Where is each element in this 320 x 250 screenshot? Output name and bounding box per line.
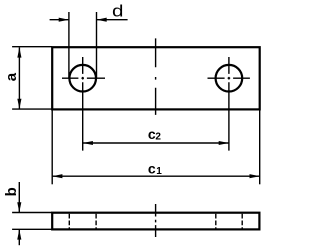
hidden line hole left edge <box>68 214 70 229</box>
hidden line hole left edge 2 <box>95 214 97 229</box>
dimension b line top <box>18 182 20 212</box>
dimension d extension line left <box>68 12 70 78</box>
svg-text:1: 1 <box>156 166 162 177</box>
dimension a arrow top <box>17 47 21 57</box>
dimension d arrow left <box>59 18 69 22</box>
centerline horizontal left hole <box>62 77 105 79</box>
dimension b arrow down <box>17 202 21 212</box>
hidden line hole right edge <box>215 214 217 229</box>
dimension d arrow right <box>97 18 107 22</box>
dimension c1 arrow right <box>250 174 260 178</box>
centerline vertical left hole <box>82 57 84 151</box>
svg-text:2: 2 <box>155 131 161 142</box>
dimension c1 extension line left <box>51 110 53 184</box>
hole left <box>69 65 96 92</box>
dimension d extension line right <box>96 12 98 78</box>
dimension d leader left <box>50 19 69 21</box>
dimension b line bottom <box>18 229 20 245</box>
dimension a extension line bottom <box>12 108 52 110</box>
centerline middle top view <box>155 38 157 115</box>
dimension d leader right <box>97 19 128 21</box>
hidden line hole right edge 2 <box>241 214 243 229</box>
centerline horizontal right hole <box>208 77 250 79</box>
svg-text:b: b <box>3 187 20 196</box>
centerline vertical right hole <box>228 57 230 151</box>
dimension b extension line top <box>12 212 52 214</box>
dimension a arrow bottom <box>17 99 21 109</box>
svg-text:d: d <box>112 1 123 20</box>
dimension a extension line top <box>12 46 52 48</box>
hole right <box>216 65 243 92</box>
dimension c1 arrow left <box>52 174 62 178</box>
dimension c2 arrow right <box>219 141 229 145</box>
dimension c1 line <box>52 175 260 177</box>
label d <box>112 1 123 20</box>
svg-text:a: a <box>3 72 20 81</box>
dimension c2 arrow left <box>83 141 93 145</box>
dimension b arrow up <box>17 229 21 239</box>
dimension c2 line <box>83 142 229 144</box>
dimension c1 extension line right <box>259 110 261 184</box>
dimension a line <box>18 47 20 109</box>
top view plate outline <box>52 47 260 109</box>
svg-text:c: c <box>148 160 156 176</box>
centerline middle side view <box>155 204 157 237</box>
side view plate outline <box>52 213 259 230</box>
dimension b extension line bottom <box>12 228 52 230</box>
